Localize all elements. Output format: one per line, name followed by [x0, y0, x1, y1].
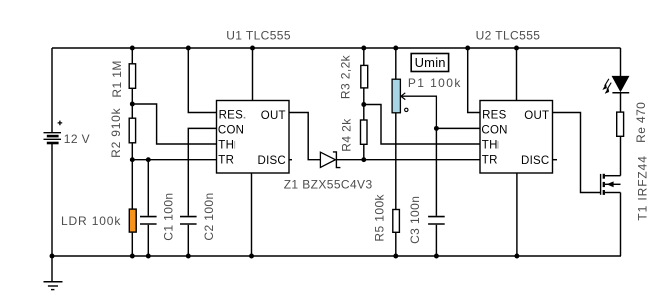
svg-text:12 V: 12 V — [64, 132, 90, 146]
svg-text:Z1 BZX55C4V3: Z1 BZX55C4V3 — [284, 178, 373, 192]
Umin box — [411, 54, 448, 72]
wire P1 bottom to R5 — [395, 113, 397, 209]
capacitor C1 — [140, 160, 157, 256]
node Z1 R4 — [361, 157, 366, 162]
wire P1 top — [395, 48, 397, 79]
resistor R2 — [129, 118, 135, 143]
capacitor C2 — [180, 217, 197, 256]
wire RES U1 from rail — [188, 48, 216, 113]
ground — [44, 256, 63, 290]
wire GND U1 — [251, 173, 253, 256]
svg-text:C2 100n: C2 100n — [202, 192, 216, 240]
wire R2 bottom to node — [131, 143, 133, 209]
wire V+ U1 — [252, 48, 254, 101]
wire top supply rail — [52, 47, 621, 49]
pin labels U1 — [218, 110, 286, 167]
svg-text:Re 470: Re 470 — [634, 102, 648, 143]
node R1 R2 — [130, 102, 135, 107]
svg-text:Umin: Umin — [415, 55, 446, 70]
node rail V+ U2 — [514, 46, 519, 51]
wiper P1 arrow — [401, 93, 437, 129]
svg-text:U1 TLC555: U1 TLC555 — [226, 28, 291, 42]
wire CON U2 — [436, 127, 480, 129]
wire node R3R4 to TH U2 — [364, 105, 480, 145]
terminal circle P1 — [405, 108, 408, 111]
artifact tick after TH U2 — [497, 141, 498, 149]
node gnd C1 — [146, 254, 151, 259]
node CON C3 — [434, 126, 439, 131]
node rail RES U2 — [465, 46, 470, 51]
wire OUT U2 to gate — [553, 113, 601, 193]
wire left battery branch lower — [51, 144, 53, 256]
wire LED bar to Re — [620, 93, 622, 112]
svg-text:DISC: DISC — [521, 155, 549, 167]
wire R5 bottom — [395, 233, 397, 256]
resistor R1 — [129, 64, 135, 89]
node gnd U2 — [514, 254, 519, 259]
pin labels U2 — [481, 110, 549, 167]
svg-text:T1 IRFZ44: T1 IRFZ44 — [636, 155, 650, 220]
wire TR line U1 — [132, 159, 216, 161]
node R2 TR — [130, 157, 135, 162]
wire TR line U2 — [364, 159, 480, 161]
LDR — [129, 209, 136, 232]
wire drain up to Re — [620, 137, 622, 176]
wire R1 top — [131, 48, 133, 63]
node rail R1 — [130, 46, 135, 51]
node gnd LDR — [130, 254, 135, 259]
transistor T1 IRFZ44 — [601, 174, 621, 195]
node gnd left — [50, 254, 55, 259]
wire R3 top — [363, 48, 365, 65]
artifact tick after TH U1 — [234, 141, 235, 149]
svg-text:P1 100k: P1 100k — [408, 76, 462, 90]
node rail V+ U1 — [250, 46, 255, 51]
svg-text:R4 2k: R4 2k — [339, 118, 353, 152]
op-amp U1 TLC555 box — [217, 101, 290, 174]
wire V+ U2 — [516, 48, 518, 101]
svg-text:C3 100n: C3 100n — [408, 196, 422, 244]
wire R3 bottom — [363, 88, 365, 120]
svg-text:RES: RES — [219, 110, 243, 122]
node rail RES U1 — [186, 46, 191, 51]
artifact dot after RES U1 — [244, 117, 246, 119]
wire OUT U1 to diode — [289, 113, 320, 160]
LED arrows — [603, 79, 611, 94]
node gnd R5 — [393, 254, 398, 259]
svg-text:R5 100k: R5 100k — [373, 193, 387, 241]
svg-text:R1 1M: R1 1M — [110, 60, 124, 97]
svg-text:TH: TH — [482, 140, 498, 152]
svg-text:CON: CON — [218, 124, 244, 136]
potentiometer P1 — [392, 79, 400, 113]
node gnd C3 — [434, 254, 439, 259]
resistor R4 — [361, 120, 368, 144]
wire rail down to LED — [620, 48, 622, 76]
wire source down to rail — [620, 193, 622, 257]
battery BT 12V — [44, 121, 63, 143]
svg-text:R2 910k: R2 910k — [109, 107, 123, 157]
node gnd C2 — [186, 254, 191, 259]
wire CON U1 down — [188, 128, 216, 215]
wire DISC U2 stub — [553, 159, 558, 161]
op-amp U2 TLC555 box — [480, 101, 553, 174]
wire LDR bottom — [131, 233, 133, 256]
node gnd U1 — [249, 254, 254, 259]
node R3 R4 — [361, 102, 366, 107]
svg-text:OUT: OUT — [261, 110, 286, 122]
wire bottom ground rail — [52, 255, 621, 257]
svg-text:TR: TR — [482, 155, 498, 167]
wire DISC U1 stub — [289, 159, 292, 161]
wire node R1R2 to TH U1 — [132, 104, 216, 144]
svg-text:TR: TR — [218, 155, 234, 167]
svg-text:DISC: DISC — [258, 155, 286, 167]
svg-text:R3 2,2k: R3 2,2k — [338, 54, 352, 99]
wire R4 bottom — [363, 145, 365, 160]
capacitor C3 — [428, 128, 445, 256]
svg-text:LDR 100k: LDR 100k — [61, 214, 121, 228]
wire RES U2 from rail — [468, 48, 480, 113]
wire R1 bottom to node — [131, 89, 133, 118]
svg-text:C1 100n: C1 100n — [162, 193, 176, 241]
node rail R3 — [361, 46, 366, 51]
LED D1 — [612, 76, 629, 92]
wire GND U2 — [516, 173, 518, 256]
svg-text:U2 TLC555: U2 TLC555 — [476, 28, 541, 42]
svg-text:OUT: OUT — [524, 110, 549, 122]
resistor R3 — [361, 65, 368, 88]
resistor Re — [617, 112, 624, 136]
svg-text:RES: RES — [482, 110, 506, 122]
svg-text:TH: TH — [218, 140, 234, 152]
node C1 TR — [146, 157, 151, 162]
svg-text:CON: CON — [481, 124, 507, 136]
node rail P1 — [393, 46, 398, 51]
resistor R5 — [393, 210, 400, 233]
diode Z1 BZX55C4V3 — [320, 152, 363, 168]
wire left battery branch upper — [51, 48, 53, 132]
